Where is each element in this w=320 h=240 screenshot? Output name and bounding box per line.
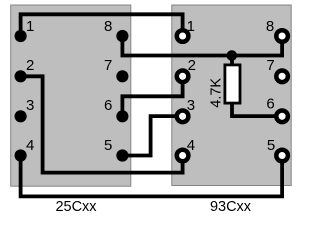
svg-text:6: 6 <box>266 95 274 112</box>
svg-text:4.7K: 4.7K <box>209 78 225 108</box>
svg-text:7: 7 <box>104 57 112 74</box>
svg-text:93Cxx: 93Cxx <box>210 199 252 215</box>
svg-text:6: 6 <box>104 97 112 114</box>
svg-text:8: 8 <box>266 18 274 35</box>
svg-text:1: 1 <box>26 18 34 35</box>
svg-text:5: 5 <box>267 137 275 154</box>
svg-text:1: 1 <box>187 18 195 35</box>
svg-text:3: 3 <box>26 97 34 114</box>
svg-text:5: 5 <box>104 137 112 154</box>
svg-text:2: 2 <box>188 57 196 74</box>
svg-text:8: 8 <box>104 18 112 35</box>
svg-text:4: 4 <box>26 137 34 154</box>
svg-text:2: 2 <box>26 57 34 74</box>
svg-text:7: 7 <box>266 57 274 74</box>
svg-text:4: 4 <box>187 137 195 154</box>
svg-text:3: 3 <box>187 97 195 114</box>
svg-text:25Cxx: 25Cxx <box>55 199 97 215</box>
